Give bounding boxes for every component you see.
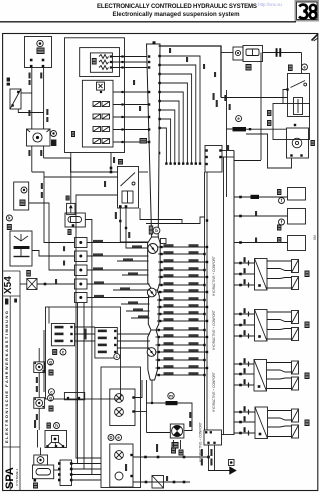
stub label R13 — [189, 334, 199, 337]
fan label c — [203, 64, 205, 69]
wire label comp b — [189, 421, 191, 427]
bottom rail 2 — [133, 481, 190, 483]
battery box — [10, 231, 32, 266]
module2 id label — [71, 131, 75, 137]
stub pin 12 — [158, 329, 160, 331]
relay BL pin — [34, 479, 37, 482]
fan pin 2 — [158, 64, 160, 66]
pressure switch sym 2 — [115, 408, 124, 417]
steering pin c — [62, 445, 64, 447]
marker ws1 — [48, 359, 54, 365]
front electrovalve bus pin 3 — [239, 284, 242, 287]
wire regulator to bus b — [18, 109, 43, 113]
wire module2 w2 — [113, 104, 149, 106]
axle electrovalve 4 pipe bottom — [268, 436, 292, 438]
rear electrovalve tick top — [248, 312, 250, 317]
stub label L13 — [164, 334, 174, 337]
marker k — [6, 215, 12, 221]
front electrovalve valve box — [255, 259, 268, 291]
stub label R10 — [189, 311, 199, 314]
fan wire 5 — [158, 92, 183, 163]
stub junction pin 11 — [206, 320, 208, 322]
front electrovalve tick bottom — [248, 283, 250, 288]
wire hc3 — [234, 242, 288, 244]
relay BL symbol — [37, 457, 44, 464]
stub wire 2 — [158, 253, 204, 255]
wire hc1 — [234, 196, 288, 198]
stub wire 3 — [158, 261, 207, 263]
stub wire 7 — [157, 291, 207, 293]
fuse element — [246, 49, 259, 56]
bottom label col — [156, 444, 158, 452]
wire module2 w5 — [113, 141, 150, 143]
relay TR outer box — [273, 104, 310, 140]
axle electrovalve 3 wire label 3 — [244, 379, 246, 384]
wire label pump d — [41, 192, 43, 198]
splice1 label 2 — [132, 245, 142, 248]
sidebar divider outer — [19, 271, 21, 491]
rail1 pin d — [207, 456, 210, 459]
marker b splice — [153, 227, 160, 234]
switch bottom pin a — [119, 205, 122, 208]
splice2 label 1 — [94, 281, 104, 284]
regulator diagonal — [10, 89, 21, 109]
fan wire 4 — [158, 83, 187, 163]
stub wire 12 — [156, 329, 205, 331]
funnel drop 2 pin — [151, 402, 153, 404]
wire label f — [46, 117, 48, 122]
relay TR coil — [294, 98, 303, 115]
marker steering — [54, 423, 60, 429]
svg-text:X54: X54 — [3, 276, 14, 294]
resistor r1 — [99, 55, 109, 59]
ws2 down label — [36, 414, 38, 420]
axle electrovalve 4 wire label 2 — [244, 416, 246, 421]
ground unit pin a — [205, 431, 207, 433]
stub junction pin 4 — [203, 269, 205, 271]
rear electrovalve valve box — [255, 310, 268, 342]
axle electrovalve 3 wire label 2 — [244, 368, 246, 373]
svg-text:Electronically managed suspe: Electronically managed suspension system — [113, 11, 241, 18]
front electrovalve valve pin — [258, 284, 261, 287]
ground wire label a — [201, 449, 203, 456]
ws1 corner a — [34, 363, 36, 365]
fan pin 5 — [158, 91, 160, 93]
switch id label — [118, 159, 123, 165]
stub junction pin 8 — [203, 299, 205, 301]
wire label c — [40, 73, 42, 79]
compressor leg label a — [171, 448, 176, 454]
fan foot pin 2 — [195, 162, 197, 164]
rail1 pin b — [157, 456, 160, 459]
header rule — [0, 21, 296, 23]
axle electrovalve 4 damper 1 — [292, 409, 299, 422]
pump motor symbol — [33, 133, 42, 142]
wire pump jog — [32, 172, 75, 243]
H2 pin 2 — [114, 337, 116, 339]
fan wire 6 — [158, 101, 179, 163]
conn C pin L1 — [58, 462, 61, 465]
axle electrovalve 4 wire label 3 — [244, 427, 246, 432]
splice1 wire 1 — [87, 242, 149, 244]
lamp base — [51, 140, 56, 147]
H1 label row 2 — [55, 333, 64, 336]
stub label R12 — [189, 327, 199, 330]
stub junction pin 14 — [203, 344, 205, 346]
pump corner notch b — [47, 129, 51, 132]
relay IP id label 2 — [68, 229, 72, 235]
fan label a — [169, 48, 171, 53]
H1 label row 1 — [55, 326, 64, 329]
splice2 label 6 — [138, 315, 148, 318]
wire stack down a — [77, 303, 79, 464]
box D pin 2 — [205, 156, 207, 158]
wire pump to switch b — [44, 176, 118, 178]
stub label R11 — [189, 318, 199, 321]
conn C pin R3 — [70, 473, 73, 476]
wire H2 out 3 — [117, 347, 150, 349]
rear electrovalve pipe bottom — [267, 338, 292, 340]
steering wire label — [34, 420, 36, 428]
splice2 wire 5 — [126, 310, 150, 312]
stub pin 17 — [158, 367, 160, 369]
wire ground a — [209, 445, 230, 471]
fuse branch label b — [216, 100, 218, 107]
wire ecu to switch — [110, 153, 112, 173]
wire ps up — [135, 380, 142, 398]
wire label d — [46, 109, 48, 115]
splice2 wire 4 — [121, 303, 150, 305]
splice1 wire 5 — [87, 269, 149, 271]
stub pin 9 — [159, 306, 161, 308]
wire H1-H2 3 — [75, 340, 95, 342]
svg-text:b: b — [155, 228, 158, 233]
wire H1-H2 1 — [75, 326, 95, 328]
chassis ground — [229, 466, 237, 474]
front electrovalve bus pin 2 — [239, 273, 242, 276]
box D pin r1 — [219, 149, 221, 151]
wire ground unit right — [222, 434, 235, 436]
switch bottom pin b — [125, 205, 128, 208]
fan wire 8 — [158, 119, 170, 163]
front electrovalve wire 3 — [234, 284, 255, 286]
wire pump to switch a — [44, 158, 118, 172]
svg-text:HYDRACTIVE + CONFORT: HYDRACTIVE + CONFORT — [212, 310, 216, 350]
relay IP coil box — [67, 203, 75, 214]
H1 pin 1 — [70, 326, 72, 328]
res2 pin — [249, 128, 251, 130]
unit 1 pin a — [30, 59, 33, 62]
steering pin a — [46, 445, 48, 447]
fuse id label — [246, 64, 252, 71]
mid small box pin — [67, 397, 69, 399]
rail vertical b — [204, 172, 206, 430]
harness pin L6 — [148, 116, 150, 118]
ps pin 1 — [132, 396, 134, 398]
shunt diagonal a — [27, 279, 37, 290]
main harness strip — [147, 44, 161, 237]
funnel top box — [161, 239, 167, 244]
box D pin 3 — [205, 163, 207, 165]
fan pin 8 — [158, 118, 160, 120]
splice1 wire 6 — [122, 274, 149, 276]
wire relay top — [40, 448, 42, 456]
junction stack label b — [63, 261, 65, 266]
pb2 sym 2 — [115, 472, 123, 480]
splice1 wire 4 — [117, 260, 149, 262]
ws2 corner b — [42, 406, 44, 408]
rail2 pin a — [145, 481, 148, 484]
svg-text:h: h — [55, 423, 58, 428]
stub label R15 — [189, 349, 199, 352]
fan label d — [214, 72, 216, 77]
fan wire 1 — [158, 56, 200, 163]
stub label R8 — [189, 297, 199, 300]
wire fuse feed — [221, 52, 233, 54]
axle electrovalve 3 damper 2 — [292, 377, 299, 390]
rail2 pin b — [173, 481, 176, 484]
axle electrovalve 3 pipe bottom — [267, 388, 292, 390]
stub pin 2 — [160, 253, 162, 255]
harness id label — [140, 138, 148, 144]
bus top labels — [227, 145, 229, 150]
stub label R17 — [189, 365, 199, 368]
front electrovalve wire label 3 — [244, 279, 246, 284]
connector box D — [205, 146, 222, 173]
axle electrovalve 4 tick top — [248, 410, 250, 415]
switch wire label c — [115, 212, 117, 219]
relay TR box — [288, 74, 310, 117]
svg-text:ELEKTRONISCHE FAHRWERKABSTIMMU: ELEKTRONISCHE FAHRWERKABSTIMMUNG — [4, 311, 9, 443]
stub label L15 — [164, 349, 174, 352]
wire label sw a — [104, 181, 106, 187]
switch coil box — [122, 191, 133, 203]
stub pin 5 — [160, 276, 162, 278]
wire relay IP up — [70, 153, 72, 204]
conn C pin L4 — [58, 479, 61, 482]
shunt wire pin — [44, 283, 47, 286]
stub label L11 — [164, 318, 174, 321]
stub wire 10 — [157, 313, 205, 315]
relay IP pin bottom — [72, 224, 75, 227]
harness pin L2 — [148, 61, 150, 63]
fan foot pin 6 — [178, 162, 180, 164]
wire connC 3 — [73, 474, 102, 476]
wire relay-conn — [54, 469, 60, 471]
wire sensor 2 — [112, 61, 148, 63]
junction box 2 — [75, 251, 88, 262]
rear electrovalve bus pin 3 — [239, 335, 242, 338]
wire resistor right — [178, 403, 193, 431]
wire relay TR left — [283, 90, 288, 104]
rear electrovalve wire 3 — [234, 335, 255, 337]
warning lamp — [51, 131, 57, 137]
ground wire label c — [210, 449, 212, 456]
splice1 label 3 — [93, 253, 103, 256]
steering inner box — [52, 436, 59, 443]
connector mark left edge 2 — [7, 83, 10, 86]
axle electrovalve 4 valve box — [255, 407, 268, 439]
ground unit pin d — [213, 442, 215, 444]
ECU outer box — [65, 38, 125, 153]
svg-text:HYDRACTIVE + CONFORT: HYDRACTIVE + CONFORT — [199, 422, 203, 462]
axle electrovalve 4 tick bottom — [248, 431, 250, 436]
axle electrovalve 4 damper 2 — [292, 425, 299, 438]
wire res2 left — [227, 129, 233, 197]
wire pin m5 — [121, 141, 123, 143]
marker e2 — [236, 116, 242, 122]
module2 switch e — [93, 127, 101, 132]
wire connC 2 — [73, 468, 102, 470]
stub wire 16 — [156, 359, 205, 361]
stub wire 15 — [156, 351, 208, 353]
rear electrovalve wire label 3 — [244, 330, 246, 335]
rail2 pin c — [183, 481, 186, 484]
wire switch down b — [126, 208, 148, 248]
stub label L14 — [164, 342, 174, 345]
relay TR pin — [286, 88, 288, 90]
rear electrovalve pipe top — [267, 311, 292, 313]
rear electrovalve tick bottom — [248, 334, 250, 339]
stub pin 4 — [160, 269, 162, 271]
stub pin 13 — [158, 336, 160, 338]
ground wire label d — [210, 459, 212, 466]
ballast resistor 2 — [233, 127, 247, 131]
ECU module 2 box — [82, 80, 113, 147]
conn C pin L2 — [58, 468, 61, 471]
junction box 1 — [75, 238, 88, 248]
hydractive unit outer box — [101, 367, 141, 488]
fan wire 2 — [158, 65, 196, 163]
sensor pin 3 — [110, 66, 112, 68]
stub label R2 — [189, 251, 199, 254]
compressor leg label b — [179, 450, 184, 456]
stub label R9 — [189, 304, 199, 307]
stub label R16 — [189, 357, 199, 360]
stub label L5 — [164, 274, 174, 277]
wire hc3 label — [255, 238, 257, 243]
stub junction pin 18 — [203, 374, 205, 376]
stub label R4 — [189, 267, 199, 270]
pump unit body — [27, 129, 51, 146]
stub pin 14 — [158, 344, 160, 346]
relay TR id label — [288, 65, 293, 72]
fan bus link — [234, 160, 261, 162]
switch wire pin d — [125, 227, 127, 229]
wire hc2 — [234, 215, 288, 217]
stub junction pin 2 — [203, 253, 205, 255]
compressor id label — [172, 442, 179, 449]
fan foot pin 4 — [186, 162, 188, 164]
axle electrovalve 4 wire 2 — [234, 421, 255, 423]
axle electrovalve 4 pipe top — [268, 410, 292, 412]
connector mark left edge — [7, 78, 10, 82]
stub junction pin 16 — [203, 359, 205, 361]
ws wire label b — [36, 386, 38, 392]
front electrovalve wire label 1 — [244, 257, 246, 262]
module2 switch f — [102, 127, 110, 132]
junction stack label a — [63, 246, 65, 251]
axle electrovalve 3 damper 1 — [292, 361, 299, 374]
wire label comp a — [189, 412, 191, 418]
stub label L7 — [164, 289, 174, 292]
H2 pin 4 — [114, 351, 116, 353]
axle electrovalve 4 valve diagonal — [255, 407, 268, 439]
stub wire 9 — [157, 306, 207, 308]
ground unit box — [204, 430, 222, 445]
sidebar X54 box bottom — [3, 295, 20, 297]
wire to relay right — [301, 53, 303, 74]
res2 upper label b — [229, 104, 231, 110]
front electrovalve bus pin 1 — [239, 262, 242, 265]
wheel sensor 1 symbol — [36, 364, 43, 371]
splice1 wire 2 — [126, 247, 149, 249]
stub wire 14 — [156, 344, 205, 346]
front electrovalve pipe split — [267, 269, 292, 271]
funnel drop 1 — [146, 380, 148, 433]
H1 id label — [52, 349, 57, 355]
fan pin 3 — [158, 73, 160, 75]
splice2 wire 1 — [87, 283, 150, 285]
module2 switch b — [102, 102, 110, 107]
wire pin m2 — [121, 103, 123, 105]
wheel sensor 1 box — [34, 362, 45, 373]
axle electrovalve 3 wire 3 — [234, 384, 254, 386]
hc front id — [277, 189, 281, 195]
stub label L16 — [164, 357, 174, 360]
front electrovalve pipe bottom — [267, 287, 292, 289]
junction box 4 — [75, 279, 88, 289]
unit 1 sensor symbol — [37, 40, 43, 46]
fan wire 9 — [158, 128, 166, 163]
stub label L9 — [164, 304, 174, 307]
switch top pins — [151, 152, 154, 155]
resistor r2 — [99, 60, 109, 64]
ws wire label a — [36, 377, 38, 383]
axle electrovalve 3 pipe split — [267, 370, 292, 372]
relay BL id label — [33, 483, 38, 489]
steering wire left — [37, 430, 39, 448]
splice1 label 5 — [93, 267, 103, 270]
box D pin 1 — [205, 149, 207, 151]
stub wire 5 — [158, 276, 207, 278]
ground unit pin c — [207, 442, 209, 444]
switch feed pin a — [110, 167, 113, 170]
switch wire label d — [128, 232, 130, 238]
main supply bus wire — [159, 46, 222, 98]
pressure switch sym 1 — [115, 394, 124, 403]
stub pin 18 — [158, 374, 160, 376]
ballast resistor — [166, 401, 178, 405]
bus pin hc2 — [239, 215, 242, 218]
marker k id label — [7, 224, 12, 230]
fan foot pin 9 — [165, 162, 167, 164]
rear electrovalve damper 1 — [292, 311, 299, 324]
harness funnel 3 — [148, 330, 159, 380]
ground screw symbol — [229, 460, 235, 466]
H2 label row 3 — [98, 344, 107, 347]
battery terminal wire — [32, 251, 75, 257]
svg-text:SYSTEME 4: SYSTEME 4 — [15, 468, 19, 486]
corner mark — [312, 34, 319, 41]
ignition switch box — [118, 167, 139, 209]
svg-text:XM: XM — [313, 235, 317, 240]
harness pin L7 — [148, 128, 150, 130]
H1 pin 3 — [70, 340, 72, 342]
wire pump left down — [31, 146, 33, 172]
wire module2 w3 — [113, 116, 149, 118]
steering legs — [48, 443, 52, 447]
